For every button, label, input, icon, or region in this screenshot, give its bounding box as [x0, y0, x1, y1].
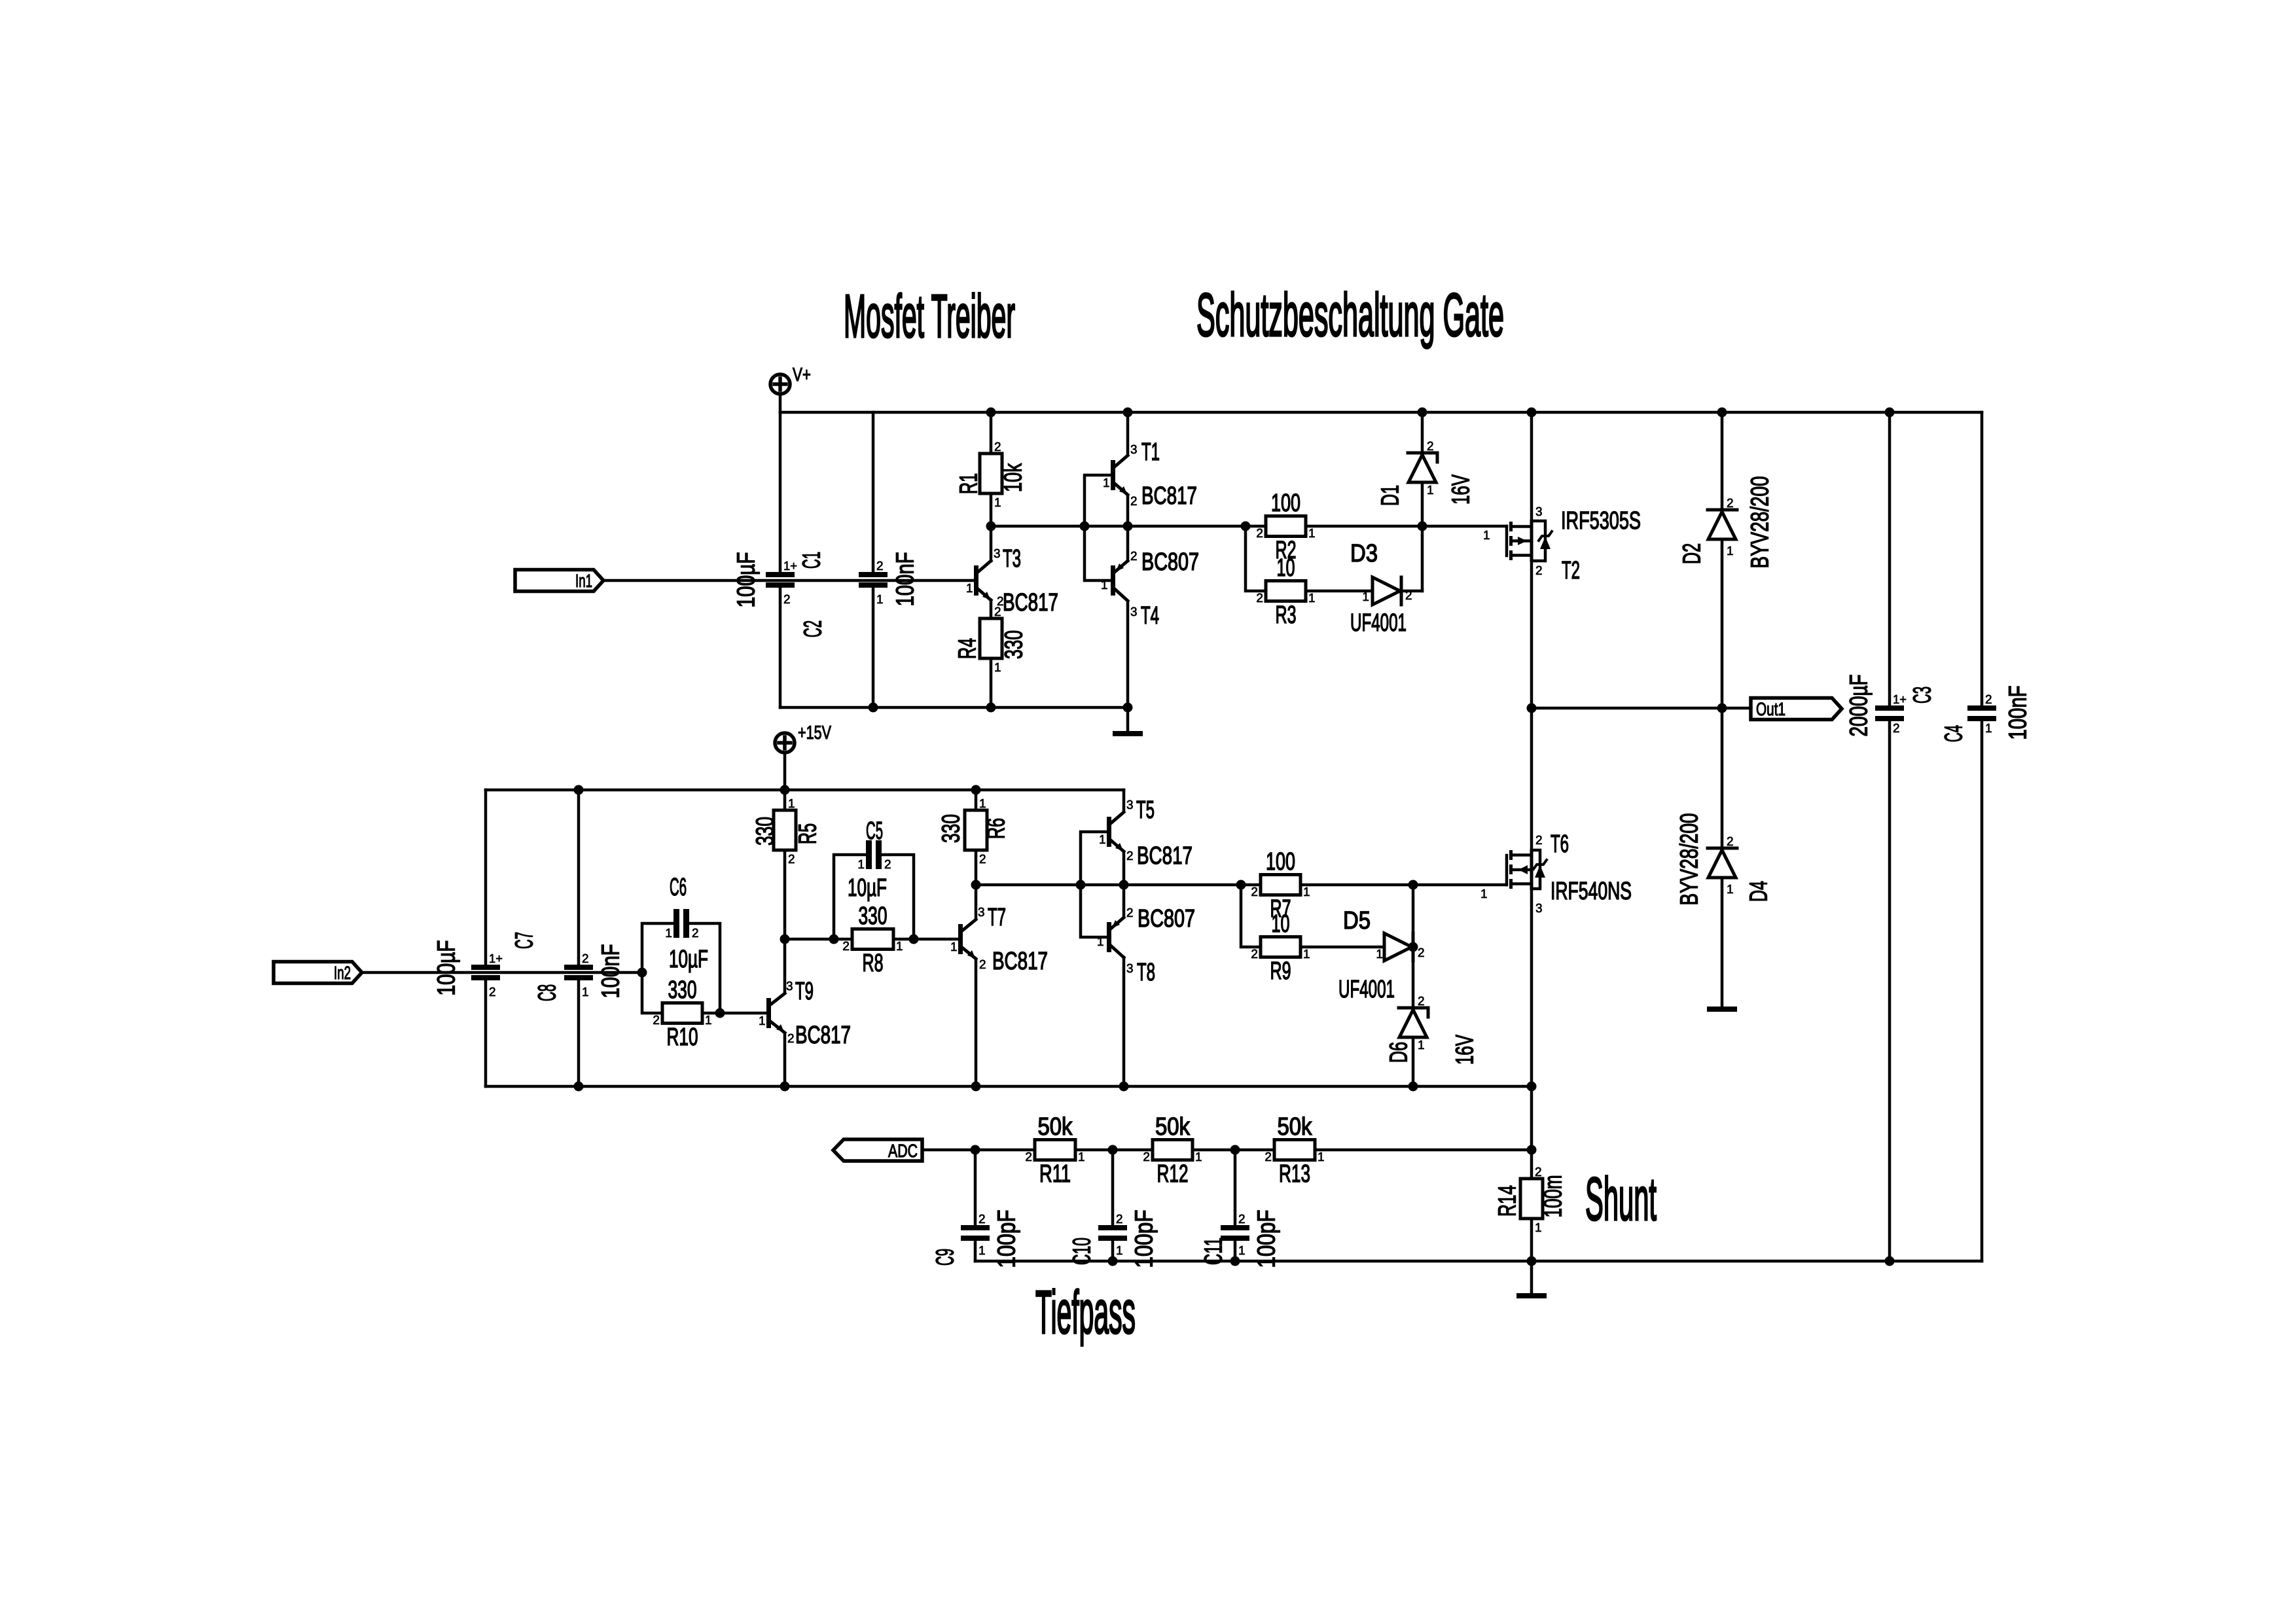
wire R9 to D5: [1300, 946, 1386, 949]
wire D2 branch lower: [1721, 539, 1724, 708]
svg-text:2: 2: [1126, 906, 1134, 920]
resistor R4: [954, 605, 1028, 675]
wire R2-R3 split: [1246, 526, 1266, 591]
svg-text:1: 1: [1099, 833, 1106, 847]
junction in2/C6: [637, 968, 647, 978]
svg-text:2: 2: [842, 940, 850, 954]
wire T2 drain down: [1530, 562, 1534, 708]
wire node to R8 left: [785, 938, 852, 941]
junction bus/D1: [1418, 408, 1427, 418]
svg-text:BC817: BC817: [1141, 482, 1197, 510]
T5 labels: [1099, 796, 1193, 870]
wire R1 bottom / T3 collector: [990, 493, 993, 561]
svg-text:1: 1: [759, 1014, 766, 1028]
svg-text:2: 2: [884, 858, 891, 872]
svg-text:1: 1: [1535, 1221, 1542, 1235]
svg-text:1: 1: [857, 858, 865, 872]
capacitor C1 100uF: [733, 552, 826, 608]
svg-text:1: 1: [1078, 1150, 1085, 1164]
svg-text:100pF: 100pF: [994, 1210, 1021, 1268]
transistor T6 IRF540NS (N-MOSFET): [1507, 849, 1547, 890]
junction bus/R1: [986, 408, 996, 418]
svg-text:C11: C11: [1200, 1238, 1228, 1265]
wire driver2 output node y=1352: [976, 883, 1507, 887]
svg-text:C4: C4: [1941, 725, 1968, 742]
svg-text:1: 1: [1097, 935, 1104, 949]
svg-text:1: 1: [1727, 883, 1734, 897]
svg-text:R6: R6: [983, 818, 1011, 839]
svg-text:R14: R14: [1494, 1185, 1522, 1217]
svg-text:C7: C7: [511, 932, 539, 949]
svg-text:2: 2: [1238, 1213, 1246, 1226]
wire C1 branch lower: [779, 588, 782, 707]
svg-text:1: 1: [1103, 476, 1110, 490]
svg-text:R5: R5: [795, 823, 822, 844]
connector ADC: [833, 1139, 922, 1161]
svg-text:1: 1: [994, 496, 1001, 510]
diode D6 zener 16V: [1399, 1008, 1428, 1037]
svg-text:ADC: ADC: [888, 1141, 918, 1161]
svg-text:2: 2: [1256, 592, 1263, 605]
transistor T4 BC807 (PNP): [1111, 561, 1128, 601]
connector In2: [274, 962, 362, 984]
junction rail2/T8: [1119, 1082, 1129, 1092]
wire C9 branch upper: [974, 1150, 977, 1225]
T7 labels: [950, 904, 1048, 975]
svg-text:1: 1: [1362, 590, 1369, 604]
svg-text:R10: R10: [667, 1024, 698, 1051]
svg-text:R9: R9: [1270, 957, 1291, 985]
svg-text:D5: D5: [1343, 907, 1371, 935]
D3 labels: [1350, 540, 1412, 637]
junction bus/T2: [1527, 408, 1537, 418]
D2 labels: [1679, 476, 1774, 569]
svg-text:100nF: 100nF: [2005, 686, 2032, 740]
svg-text:2: 2: [783, 593, 791, 607]
svg-text:T1: T1: [1141, 438, 1160, 466]
T2 labels: [1483, 505, 1641, 584]
junction rail2/T6: [1527, 1082, 1537, 1092]
svg-text:1+: 1+: [783, 560, 797, 573]
svg-text:2: 2: [1727, 497, 1734, 510]
svg-text:10: 10: [1272, 910, 1290, 938]
svg-text:C8: C8: [534, 984, 562, 1001]
junction rail1/C2: [869, 703, 878, 713]
svg-text:3: 3: [1535, 505, 1543, 519]
svg-text:1: 1: [1195, 1150, 1202, 1164]
wire C7 branch lower: [484, 980, 488, 1086]
wire section2 lower rail: [486, 1085, 1532, 1088]
wire C10 branch lower: [1111, 1241, 1115, 1261]
junction node1/R2R3: [1241, 522, 1251, 531]
svg-text:1: 1: [1238, 1244, 1246, 1258]
wire C9 branch lower: [974, 1241, 977, 1261]
svg-text:1: 1: [1308, 592, 1316, 605]
svg-text:1+: 1+: [489, 952, 503, 966]
capacitor C6 10uF: [665, 874, 708, 973]
wire T7 emitter to rail: [975, 959, 978, 1086]
junction gnd/R14: [1527, 1257, 1537, 1266]
svg-text:BC817: BC817: [795, 1022, 851, 1049]
svg-text:R13: R13: [1279, 1160, 1310, 1188]
svg-text:1: 1: [1101, 579, 1108, 592]
svg-text:50k: 50k: [1278, 1113, 1313, 1141]
wire D2 branch upper: [1721, 412, 1724, 510]
wire rail to ground1: [1126, 707, 1130, 731]
svg-text:100: 100: [1271, 490, 1300, 517]
transistor T3 BC817 (NPN): [974, 561, 991, 600]
svg-text:In1: In1: [575, 571, 592, 591]
svg-text:BC817: BC817: [992, 948, 1048, 975]
svg-text:1: 1: [1303, 885, 1310, 899]
svg-text:R4: R4: [954, 638, 982, 659]
junction bus/D2: [1717, 408, 1727, 418]
wire C3 branch upper: [1888, 412, 1892, 705]
ground GND under D4: [1707, 1007, 1737, 1012]
D1 labels: [1377, 440, 1475, 506]
svg-text:UF4001: UF4001: [1338, 976, 1395, 1003]
svg-text:In2: In2: [334, 963, 351, 983]
junction r10/C6R: [715, 1008, 725, 1018]
resistor R9: [1251, 910, 1310, 985]
svg-text:2: 2: [653, 1014, 660, 1027]
resistor R7: [1251, 848, 1310, 923]
D6 labels: [1386, 995, 1479, 1065]
svg-text:1: 1: [896, 940, 903, 954]
T4 labels: [1101, 548, 1199, 630]
wire D6 to rail: [1412, 1037, 1415, 1086]
svg-text:100nF: 100nF: [598, 944, 625, 999]
svg-text:10: 10: [1277, 554, 1295, 582]
capacitor C10 100pF: [1069, 1210, 1158, 1268]
svg-text:D1: D1: [1377, 485, 1405, 506]
svg-text:D4: D4: [1746, 881, 1773, 902]
junction node1/emitters: [1123, 522, 1133, 531]
junction node2a/C5L: [829, 935, 839, 944]
capacitor C7 100uF: [433, 932, 539, 999]
wire T2 source to bus: [1530, 412, 1534, 520]
junction bus/T1: [1123, 408, 1133, 418]
capacitor C11 100pF: [1200, 1210, 1281, 1268]
svg-text:D6: D6: [1386, 1042, 1413, 1063]
svg-text:BYV28/200: BYV28/200: [1676, 813, 1704, 906]
resistor R8: [842, 902, 903, 977]
svg-text:V+: V+: [793, 365, 811, 385]
supply symbol V+: [770, 365, 811, 394]
resistor R11: [1025, 1113, 1085, 1188]
diode D3 UF4001: [1372, 577, 1401, 605]
svg-text:T2: T2: [1562, 557, 1580, 584]
svg-text:C3: C3: [1909, 687, 1937, 704]
wire C11 branch upper: [1234, 1150, 1237, 1225]
wire C2 branch lower: [872, 588, 875, 707]
svg-text:T8: T8: [1137, 959, 1155, 986]
junction gnd/C11: [1230, 1257, 1240, 1266]
svg-text:2: 2: [994, 440, 1001, 454]
junction bus2/C8: [574, 785, 584, 795]
wire section1 lower rail: [780, 706, 1128, 709]
wire R10 to T9 base: [702, 1012, 766, 1015]
wire ADC node to R14: [1530, 1150, 1534, 1179]
resistor R10: [653, 976, 711, 1051]
svg-text:3: 3: [1126, 962, 1134, 976]
svg-text:T7: T7: [988, 904, 1006, 931]
T1 labels: [1103, 438, 1197, 510]
svg-text:2: 2: [1256, 527, 1263, 541]
svg-text:BYV28/200: BYV28/200: [1747, 476, 1774, 569]
svg-text:IRF5305S: IRF5305S: [1561, 507, 1641, 535]
svg-text:2: 2: [692, 927, 699, 940]
wire T9 emitter to rail: [783, 1033, 787, 1086]
svg-text:2: 2: [1143, 1150, 1150, 1164]
junction node2/R6: [971, 880, 981, 890]
junction rail2/D6: [1408, 1082, 1418, 1092]
svg-text:10µF: 10µF: [848, 874, 887, 902]
svg-text:3: 3: [1535, 902, 1543, 916]
wire In1 to T3 base: [603, 579, 974, 582]
T9 labels: [759, 978, 851, 1049]
wire R4 bottom to rail: [990, 659, 993, 707]
svg-text:2: 2: [1427, 440, 1434, 454]
D4 labels: [1676, 813, 1773, 906]
svg-text:2: 2: [1116, 1213, 1123, 1226]
wire +15V bus: [486, 789, 1124, 792]
svg-text:R12: R12: [1157, 1160, 1189, 1188]
resistor R6: [938, 797, 1011, 866]
svg-text:2000µF: 2000µF: [1846, 675, 1873, 737]
wire V+ stem: [779, 394, 782, 412]
svg-text:3: 3: [1130, 443, 1138, 457]
svg-text:3: 3: [1130, 605, 1138, 619]
svg-text:2: 2: [978, 1213, 986, 1226]
supply symbol +15V: [775, 722, 831, 753]
svg-text:1: 1: [1480, 887, 1488, 901]
wire C10 branch upper: [1111, 1150, 1115, 1225]
wire C8 branch upper: [577, 790, 581, 965]
svg-text:Mosfet Treiber: Mosfet Treiber: [844, 282, 1015, 350]
svg-text:1: 1: [788, 797, 795, 811]
wire T1-T4 base link: [1085, 475, 1111, 580]
svg-text:D2: D2: [1679, 543, 1706, 564]
svg-text:2: 2: [1535, 1166, 1542, 1179]
svg-text:T9: T9: [795, 978, 814, 1005]
T6 labels: [1480, 830, 1632, 916]
wire R7-R9 split: [1241, 885, 1261, 947]
svg-text:BC817: BC817: [1137, 842, 1193, 870]
wire T1 collector to bus: [1126, 412, 1130, 455]
capacitor C3 2000uF: [1846, 675, 1937, 737]
wire C6 loop left: [642, 923, 673, 972]
ground GND under R14: [1516, 1293, 1547, 1298]
junction adc/C11: [1230, 1145, 1240, 1155]
junction adc/R14: [1527, 1145, 1537, 1155]
svg-text:R8: R8: [863, 950, 884, 977]
wire C3 branch lower: [1888, 721, 1892, 1261]
junction node2/D5D6: [1408, 880, 1418, 890]
svg-text:1: 1: [1985, 722, 1992, 736]
svg-text:1: 1: [1418, 1039, 1425, 1052]
svg-text:2: 2: [1985, 693, 1992, 707]
svg-text:2: 2: [1025, 1150, 1032, 1164]
wire R8 right to T7 base: [893, 938, 958, 941]
junction node1/D1: [1418, 522, 1427, 531]
wire D3 cathode to D1 branch: [1403, 590, 1422, 593]
wire C2 branch upper: [872, 412, 875, 572]
junction out/D2: [1717, 704, 1727, 713]
wire T6 source to ADC node: [1530, 1086, 1534, 1150]
svg-text:Shunt: Shunt: [1585, 1165, 1657, 1233]
resistor R12: [1143, 1113, 1202, 1188]
wire C8 branch lower: [577, 980, 581, 1086]
junction gnd/C3: [1885, 1257, 1895, 1266]
wire R6 top to bus: [975, 790, 978, 810]
svg-text:1: 1: [1427, 484, 1434, 497]
svg-text:D3: D3: [1350, 540, 1378, 567]
svg-text:100m: 100m: [1540, 1175, 1568, 1218]
svg-text:1: 1: [665, 927, 672, 940]
svg-text:2: 2: [582, 952, 589, 966]
wire C1 branch upper: [779, 412, 782, 572]
svg-text:2: 2: [1130, 550, 1138, 563]
svg-text:1: 1: [1376, 948, 1383, 961]
capacitor C4 100nF: [1941, 686, 2032, 743]
wire C4 branch upper: [1981, 412, 1984, 705]
svg-text:C10: C10: [1069, 1238, 1096, 1265]
D5 labels: [1338, 907, 1425, 1003]
svg-text:2: 2: [489, 986, 496, 999]
wire half-bridge link T2-T6: [1530, 708, 1534, 849]
svg-text:2: 2: [788, 853, 795, 866]
junction bus2/R5: [780, 785, 790, 795]
svg-text:1: 1: [1308, 527, 1316, 541]
svg-text:16V: 16V: [1452, 1035, 1479, 1065]
wire D1 branch lower: [1421, 482, 1424, 591]
svg-text:1: 1: [1303, 948, 1310, 961]
wire T1 emitter to node: [1126, 495, 1130, 526]
wire In2 to C6 node: [362, 971, 642, 974]
transistor T7 BC817 (NPN): [958, 919, 976, 959]
wire T5-T8 base link: [1081, 832, 1107, 937]
svg-text:1: 1: [966, 582, 973, 596]
wire driver1 output node y=804: [991, 525, 1507, 528]
wire T7 collector: [975, 885, 978, 919]
diode D4 BYV28/200: [1708, 848, 1737, 878]
svg-text:Schutzbeschaltung Gate: Schutzbeschaltung Gate: [1196, 281, 1504, 349]
resistor R5: [752, 797, 822, 866]
resistor R13: [1265, 1113, 1324, 1188]
svg-text:2: 2: [1251, 948, 1258, 961]
svg-text:1: 1: [979, 797, 986, 811]
svg-text:T4: T4: [1141, 602, 1159, 630]
resistor R2: [1256, 490, 1315, 564]
svg-text:100pF: 100pF: [1131, 1210, 1158, 1268]
wire T4 emitter to node: [1126, 526, 1130, 561]
svg-text:1: 1: [705, 1014, 712, 1027]
T8 labels: [1097, 905, 1195, 986]
junction bus/C3: [1885, 408, 1895, 418]
svg-text:2: 2: [1418, 995, 1425, 1008]
junction rail1/R4: [986, 703, 996, 713]
transistor T9 BC817 (NPN): [766, 993, 785, 1033]
svg-text:10µF: 10µF: [669, 946, 708, 973]
wire R1 top to bus: [990, 412, 993, 454]
junction out/T2: [1527, 704, 1537, 713]
wire C6 node down to R10: [642, 972, 662, 1013]
wire D5-D6 branch upper: [1412, 885, 1415, 1008]
svg-text:330: 330: [1001, 630, 1028, 659]
wire R6 bottom to node: [975, 850, 978, 885]
svg-text:T5: T5: [1136, 796, 1155, 824]
resistor R3: [1256, 554, 1315, 629]
junction rail1/T4: [1123, 703, 1133, 713]
svg-text:1: 1: [1318, 1150, 1325, 1164]
svg-text:2: 2: [1265, 1150, 1272, 1164]
wire T6 source down: [1530, 889, 1534, 1086]
svg-text:10k: 10k: [1000, 463, 1028, 492]
wire C5 loop right: [882, 855, 914, 939]
svg-text:100nF: 100nF: [892, 552, 920, 607]
capacitor C8 100nF: [534, 944, 625, 1002]
wire T9 collector: [783, 939, 787, 993]
wire Out1 wire: [1532, 707, 1751, 710]
svg-text:C6: C6: [670, 874, 687, 901]
wire rail to ground2: [1530, 1261, 1534, 1293]
wire R14 bottom to rail: [1530, 1219, 1534, 1261]
svg-text:2: 2: [979, 853, 986, 866]
svg-text:2: 2: [876, 560, 884, 573]
wire D4 branch lower: [1721, 878, 1724, 1007]
wire T5 emitter to node: [1122, 852, 1126, 885]
ground GND under T4: [1113, 731, 1143, 736]
svg-text:C2: C2: [800, 620, 827, 637]
svg-text:1: 1: [1116, 1244, 1123, 1258]
junction bus2/R6: [971, 785, 981, 795]
svg-text:+15V: +15V: [798, 722, 831, 743]
svg-text:2: 2: [1418, 946, 1425, 960]
transistor T1 BC817 (NPN): [1111, 455, 1128, 495]
wire ground rail bottom: [975, 1260, 1982, 1263]
svg-text:C1: C1: [798, 552, 826, 569]
svg-text:3: 3: [994, 547, 1001, 561]
junction node2/base: [1076, 880, 1086, 890]
wire V+ top bus: [780, 411, 1982, 414]
svg-text:330: 330: [668, 976, 697, 1004]
wire T8 emitter to node: [1122, 885, 1126, 917]
svg-text:1: 1: [950, 940, 958, 954]
diode D1 zener 16V: [1408, 453, 1437, 482]
junction gnd/C10: [1108, 1257, 1118, 1266]
svg-text:1: 1: [876, 593, 884, 607]
svg-text:UF4001: UF4001: [1350, 609, 1407, 637]
svg-text:330: 330: [752, 817, 780, 846]
svg-text:2: 2: [1405, 589, 1412, 603]
svg-text:1+: 1+: [1893, 693, 1907, 707]
svg-text:1: 1: [1727, 544, 1734, 558]
wire T4 collector to rail: [1126, 601, 1130, 707]
T3 labels: [966, 545, 1058, 616]
wire C7 branch upper: [484, 790, 488, 965]
svg-text:2: 2: [1893, 722, 1900, 736]
svg-text:R1: R1: [956, 473, 983, 494]
svg-text:BC807: BC807: [1138, 905, 1195, 933]
wire D1 branch upper: [1421, 412, 1424, 452]
diode D2 BYV28/200: [1708, 510, 1737, 539]
wire C11 branch lower: [1234, 1241, 1237, 1261]
wire T3 emitter to R4: [990, 600, 993, 618]
svg-text:3: 3: [1126, 798, 1134, 812]
svg-text:BC807: BC807: [1141, 548, 1199, 576]
svg-text:2: 2: [1727, 835, 1734, 849]
